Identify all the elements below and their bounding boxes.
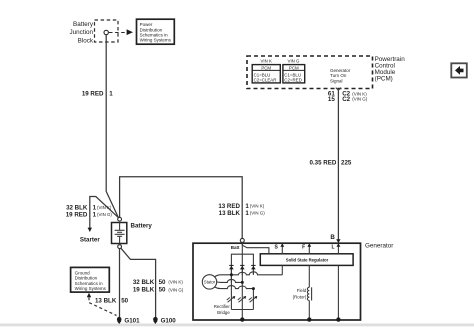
svg-text:50: 50 — [159, 279, 166, 286]
svg-text:(VIN K): (VIN K) — [352, 91, 367, 96]
svg-text:VIN G: VIN G — [288, 59, 301, 64]
svg-text:Block: Block — [78, 38, 94, 45]
svg-text:Generator: Generator — [365, 242, 393, 249]
svg-text:F: F — [302, 245, 305, 251]
svg-text:Battery: Battery — [131, 222, 153, 229]
svg-text:G100: G100 — [161, 317, 177, 324]
svg-text:Signal: Signal — [330, 78, 343, 83]
svg-text:PCM: PCM — [261, 65, 271, 70]
svg-text:0.35 RED: 0.35 RED — [309, 159, 336, 166]
svg-text:(VIN G): (VIN G) — [250, 211, 265, 216]
svg-text:Field: Field — [297, 288, 307, 293]
svg-text:(VIN G): (VIN G) — [97, 212, 112, 217]
svg-text:(VIN G): (VIN G) — [352, 97, 367, 102]
svg-text:G101: G101 — [124, 317, 140, 324]
svg-text:32 BLK: 32 BLK — [66, 204, 88, 211]
svg-text:19 BLK: 19 BLK — [133, 287, 155, 294]
svg-text:Battery: Battery — [73, 21, 94, 28]
svg-text:(VIN K): (VIN K) — [250, 204, 265, 209]
svg-text:1: 1 — [109, 91, 113, 98]
svg-text:(VIN K): (VIN K) — [97, 205, 112, 210]
svg-text:Stator: Stator — [204, 280, 216, 285]
svg-text:Junction: Junction — [70, 29, 94, 36]
svg-text:Rectifier: Rectifier — [214, 304, 231, 309]
svg-text:(PCM): (PCM) — [375, 76, 393, 83]
svg-text:Schematics in: Schematics in — [75, 281, 104, 286]
svg-text:225: 225 — [341, 159, 352, 166]
svg-text:Bridge: Bridge — [217, 310, 230, 315]
svg-text:19 RED: 19 RED — [82, 91, 104, 98]
svg-text:(Rotor): (Rotor) — [293, 294, 307, 299]
svg-text:32 BLK: 32 BLK — [133, 279, 155, 286]
svg-text:C2=CLEAR: C2=CLEAR — [254, 77, 277, 82]
svg-text:(VIN K): (VIN K) — [168, 280, 183, 285]
svg-text:Distribution: Distribution — [75, 276, 98, 281]
svg-text:Wiring Systems: Wiring Systems — [140, 38, 172, 43]
svg-text:15: 15 — [328, 96, 335, 103]
svg-text:1: 1 — [245, 210, 249, 217]
svg-text:Generator: Generator — [330, 68, 351, 73]
svg-text:B: B — [330, 234, 335, 241]
svg-text:Ground: Ground — [75, 270, 91, 275]
svg-text:50: 50 — [159, 287, 166, 294]
svg-text:VIN K: VIN K — [260, 59, 272, 64]
svg-text:Solid State Regulator: Solid State Regulator — [286, 257, 329, 262]
svg-text:(VIN G): (VIN G) — [168, 287, 183, 292]
svg-text:Starter: Starter — [80, 236, 101, 243]
svg-text:1: 1 — [93, 204, 97, 211]
svg-text:13 BLK: 13 BLK — [219, 210, 241, 217]
svg-text:Wiring Systems: Wiring Systems — [75, 286, 107, 291]
svg-text:C2: C2 — [342, 96, 350, 103]
svg-text:PCM: PCM — [289, 65, 299, 70]
svg-text:1: 1 — [93, 212, 97, 219]
svg-text:L: L — [331, 245, 334, 251]
svg-text:50: 50 — [121, 297, 128, 304]
svg-text:19 RED: 19 RED — [66, 212, 88, 219]
svg-text:13 RED: 13 RED — [218, 203, 240, 210]
svg-text:13 BLK: 13 BLK — [95, 297, 117, 304]
svg-text:Batt: Batt — [231, 245, 240, 250]
svg-text:1: 1 — [245, 203, 249, 210]
svg-text:C2=RED: C2=RED — [284, 77, 301, 82]
